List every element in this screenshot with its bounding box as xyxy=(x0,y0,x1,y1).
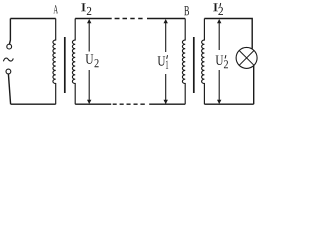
voltage label U2' (subscript 2) xyxy=(224,60,228,68)
voltage label U2 white patch xyxy=(84,53,99,69)
AC source terminal bottom xyxy=(6,69,11,74)
AC source terminal top xyxy=(7,44,12,49)
arrowhead U1' up xyxy=(164,19,168,23)
voltage label U1' (subscript 1) xyxy=(166,61,168,69)
node label B xyxy=(184,6,189,15)
wire top transmission line dashed xyxy=(115,18,143,20)
voltage label U2 (letter U) xyxy=(86,54,94,64)
prime mark of U1' xyxy=(166,55,169,59)
transformer T1 core xyxy=(64,37,66,93)
voltage arrow U2' shaft xyxy=(218,21,220,103)
voltage arrow U1' shaft xyxy=(165,21,167,104)
current label I2' (letter I) xyxy=(213,3,218,11)
wire top-left primary loop xyxy=(10,18,55,20)
current label I2 (subscript 2) xyxy=(87,7,92,15)
AC source tilde symbol xyxy=(3,58,13,61)
transformer T1 secondary winding xyxy=(72,19,75,105)
wire left lower (source bottom lead) xyxy=(8,74,10,104)
voltage label U2 (subscript 2) xyxy=(95,59,99,67)
wire bottom-left primary loop xyxy=(11,103,56,105)
voltage label U2' white patch xyxy=(215,54,230,70)
lamp cross stroke 2 xyxy=(239,51,254,66)
arrowhead U2 down xyxy=(87,100,91,104)
current label I2' (subscript 2) xyxy=(218,7,223,15)
wire bottom transmission line solid (sending end) xyxy=(75,103,111,105)
voltage label U1' (letter U) xyxy=(158,56,166,65)
transformer T1 primary winding xyxy=(53,19,56,105)
prime mark of I2' xyxy=(219,3,222,7)
transformer T2 core xyxy=(193,37,195,93)
voltage arrow U2 shaft xyxy=(88,21,90,103)
voltage label U2' (letter U) xyxy=(216,56,224,66)
arrowhead U2' down xyxy=(217,100,221,104)
arrowhead U2 up xyxy=(87,19,91,23)
voltage label U1' white patch xyxy=(157,54,171,70)
wire bottom transmission line dashed xyxy=(113,103,145,105)
current label I2 (letter I) xyxy=(81,3,86,11)
wire top transmission line solid (receiving end) xyxy=(147,18,185,20)
node label A xyxy=(53,5,58,13)
arrowhead U2' up xyxy=(217,19,221,23)
wire top transmission line solid (sending end) xyxy=(75,18,112,20)
wire left upper (source top lead) xyxy=(9,19,10,45)
transformer T2 primary winding xyxy=(182,19,185,105)
transformer T2 secondary winding xyxy=(202,19,205,105)
lamp bulb circle xyxy=(236,47,257,68)
wire bottom right loop xyxy=(204,103,253,105)
arrowhead U1' down xyxy=(164,100,168,104)
wire bottom transmission line solid (receiving end) xyxy=(149,103,185,105)
lamp cross stroke 1 xyxy=(239,51,254,66)
wire top right loop with corner down to lamp xyxy=(204,19,252,49)
lamp bottom lead wire xyxy=(253,66,255,104)
prime mark of U2' xyxy=(224,55,227,58)
